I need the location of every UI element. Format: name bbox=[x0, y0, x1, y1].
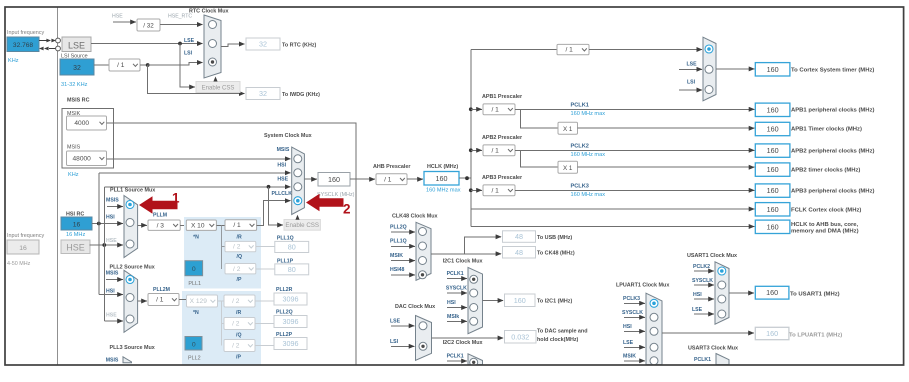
svg-text:HSE: HSE bbox=[112, 14, 123, 20]
value box To RTC 32 bbox=[246, 38, 280, 50]
svg-text:PLL1Q: PLL1Q bbox=[277, 236, 294, 242]
radio RTC HSE_RTC bbox=[209, 21, 217, 29]
radio clk48 msik bbox=[419, 257, 427, 265]
radio sys HSI bbox=[294, 169, 302, 177]
svg-text:/ 1: / 1 bbox=[233, 222, 241, 229]
mux USART3 partial bbox=[716, 354, 729, 365]
svg-text:APB2 timer clocks (MHz): APB2 timer clocks (MHz) bbox=[791, 167, 860, 173]
svg-text:USART1 Clock Mux: USART1 Clock Mux bbox=[687, 253, 737, 259]
radio usart1 lse bbox=[718, 310, 726, 318]
svg-text:160: 160 bbox=[767, 65, 779, 74]
svg-text:To USB (MHz): To USB (MHz) bbox=[537, 235, 572, 241]
svg-text:1: 1 bbox=[172, 191, 180, 206]
wire MSIK stub lpuart bbox=[624, 360, 645, 362]
wire MSIS to system mux bbox=[107, 158, 291, 160]
svg-text:/Q: /Q bbox=[236, 332, 241, 338]
radio clk48 pll1q bbox=[419, 242, 427, 250]
wire PCLK1 stub i2c1 bbox=[447, 278, 467, 280]
mux USART1 Clock Mux bbox=[715, 262, 729, 324]
value box HCLK 160 bbox=[424, 172, 459, 186]
PLL1 P dropdown /2 disabled bbox=[225, 264, 256, 274]
svg-text:APB1 Prescaler: APB1 Prescaler bbox=[482, 94, 523, 100]
value box To LPUART1 160 bbox=[755, 327, 789, 339]
wire hse to enable css2 bbox=[269, 187, 283, 225]
svg-text:SYSCLK: SYSCLK bbox=[692, 278, 713, 284]
wire lpuart out bbox=[662, 332, 754, 334]
wire clk48 to ck48 bbox=[465, 253, 502, 255]
svg-text:MSIS RC: MSIS RC bbox=[67, 98, 90, 104]
svg-text:PCLK2: PCLK2 bbox=[693, 264, 710, 270]
svg-text:HSE: HSE bbox=[106, 238, 117, 244]
svg-text:PLL2Q: PLL2Q bbox=[390, 224, 407, 230]
PLL1 N dropdown X10 bbox=[186, 220, 216, 230]
svg-text:APB3 Prescaler: APB3 Prescaler bbox=[482, 175, 523, 181]
PLL1 Q dropdown /2 disabled bbox=[225, 241, 256, 251]
svg-text:APB3 peripheral clocks (MHz): APB3 peripheral clocks (MHz) bbox=[791, 189, 875, 195]
svg-text:160: 160 bbox=[514, 296, 526, 305]
svg-text:X 10: X 10 bbox=[191, 222, 205, 229]
svg-text:/ 2: / 2 bbox=[232, 298, 240, 305]
wire FCLK bbox=[471, 208, 755, 210]
value box APB1 timer 160 bbox=[755, 122, 790, 135]
svg-text:MSIS: MSIS bbox=[106, 198, 119, 204]
svg-text:/ 1: / 1 bbox=[491, 147, 499, 154]
junction HSI bus bbox=[97, 222, 101, 226]
svg-text:/ 3: / 3 bbox=[157, 222, 165, 229]
svg-text:FCLK Cortex clock (MHz): FCLK Cortex clock (MHz) bbox=[791, 207, 861, 213]
wire LSI to RTC mux bbox=[148, 63, 203, 66]
cortex prescaler dropdown /1 bbox=[557, 44, 589, 54]
wire SYSCLK stub usart1 bbox=[694, 284, 714, 286]
mux DAC Clock Mux bbox=[416, 316, 432, 361]
svg-text:3096: 3096 bbox=[283, 339, 299, 348]
value box FCLK 160 bbox=[755, 203, 790, 216]
red arrow 2 bbox=[306, 194, 344, 212]
wire HSE_RTC to mux bbox=[160, 24, 203, 26]
wire LSE to enable CSS bbox=[180, 44, 195, 88]
junction hclk bbox=[465, 176, 469, 180]
wire HSI to PLL1 mux bbox=[92, 223, 123, 225]
HSE input frequency box 16 bbox=[7, 240, 39, 254]
svg-text:PCLK1: PCLK1 bbox=[447, 354, 464, 360]
LSE input frequency box 32.768 bbox=[7, 37, 39, 52]
svg-text:*N: *N bbox=[193, 310, 199, 316]
svg-text:16: 16 bbox=[19, 245, 27, 252]
svg-text:PCLK1: PCLK1 bbox=[694, 357, 711, 363]
radio usart1 pclk2 selected bbox=[718, 267, 726, 275]
value box To USB 48 bbox=[503, 231, 536, 243]
svg-text:PCLK1: PCLK1 bbox=[447, 271, 464, 277]
wire SYSCLK stub lpuart bbox=[624, 316, 645, 318]
PLL1 R dropdown /1 bbox=[225, 220, 257, 231]
radio usart1 hsi bbox=[718, 295, 726, 303]
PLL2 Q dropdown /2 disabled bbox=[224, 318, 255, 330]
LSI divider dropdown /1 bbox=[109, 59, 140, 71]
svg-text:160 MHz max: 160 MHz max bbox=[571, 192, 606, 198]
wire RTC mux output bbox=[221, 44, 245, 47]
radio RTC LSE bbox=[209, 40, 217, 48]
svg-text:Input frequency: Input frequency bbox=[7, 233, 44, 239]
svg-text:USART3 Clock Mux: USART3 Clock Mux bbox=[688, 346, 738, 352]
value box To CK48 48 bbox=[503, 247, 536, 259]
wire apb2 timer out bbox=[578, 166, 755, 168]
junction LSI bbox=[146, 63, 150, 67]
svg-text:LPUART1 Clock Mux: LPUART1 Clock Mux bbox=[616, 283, 669, 289]
svg-text:32: 32 bbox=[259, 89, 267, 98]
radio clk48 hsi48 selected bbox=[419, 271, 427, 279]
divider box /32 bbox=[137, 19, 160, 31]
PLL2 N dropdown X129 disabled bbox=[187, 295, 218, 307]
value box cortex 160 bbox=[755, 63, 790, 76]
svg-text:KHz: KHz bbox=[8, 58, 19, 64]
mux PLL3 partial bbox=[123, 357, 132, 363]
svg-text:4000: 4000 bbox=[74, 120, 89, 127]
wire pll2m to xn bbox=[179, 299, 187, 301]
radio lpuart pclk3 selected bbox=[650, 299, 658, 307]
wire apb1 timer branch bbox=[521, 109, 558, 128]
mux RTC Clock Mux bbox=[204, 15, 221, 78]
svg-text:LSE: LSE bbox=[390, 318, 401, 324]
wire p2 out bbox=[255, 345, 274, 347]
wire LSI to divider bbox=[94, 64, 109, 66]
connector circle top bbox=[56, 38, 61, 43]
wire cortex mux out bbox=[716, 68, 754, 70]
svg-text:KHz: KHz bbox=[68, 172, 79, 178]
value box APB3 peripheral 160 bbox=[755, 184, 790, 197]
radio pll1 HSI bbox=[126, 219, 134, 227]
wire LSI stub dac bbox=[391, 345, 414, 347]
svg-text:MSIS: MSIS bbox=[67, 145, 81, 151]
svg-text:160: 160 bbox=[328, 175, 340, 184]
svg-text:160: 160 bbox=[436, 174, 448, 183]
value box APB2 timer 160 bbox=[755, 163, 790, 176]
svg-text:I2C2 Clock Mux: I2C2 Clock Mux bbox=[443, 340, 483, 346]
value box PLL2P 3096 bbox=[274, 338, 307, 350]
wire vco2 split bbox=[221, 301, 224, 346]
svg-text:PLL1: PLL1 bbox=[188, 281, 201, 287]
svg-text:160: 160 bbox=[767, 205, 779, 214]
PLLM dropdown /3 bbox=[148, 220, 180, 230]
svg-text:PLL1Q: PLL1Q bbox=[390, 239, 407, 245]
wire bus to cortex div bbox=[471, 49, 557, 51]
wire PLL2Q stub bbox=[391, 231, 415, 233]
svg-text:/ 2: / 2 bbox=[232, 343, 240, 350]
svg-text:To LPUART1 (MHz): To LPUART1 (MHz) bbox=[789, 332, 842, 338]
mux PLL2 Source Mux bbox=[124, 270, 138, 332]
svg-text:MSIk: MSIk bbox=[447, 314, 459, 320]
svg-text:HSI: HSI bbox=[106, 215, 115, 221]
wire HSE to div32 bbox=[113, 21, 136, 23]
svg-text:48000: 48000 bbox=[73, 155, 92, 162]
wire cortex div to mux bbox=[589, 49, 702, 51]
svg-text:/ 2: / 2 bbox=[233, 244, 241, 251]
svg-text:/R: /R bbox=[236, 310, 241, 316]
wire PCLK1 stub i2c2 bbox=[447, 360, 467, 362]
wire sys mux out bbox=[304, 178, 316, 180]
value box APB1 peripheral 160 bbox=[755, 103, 790, 116]
svg-text:System Clock Mux: System Clock Mux bbox=[264, 133, 312, 139]
svg-text:PLL2Q: PLL2Q bbox=[276, 310, 293, 316]
svg-text:160 MHz max: 160 MHz max bbox=[571, 152, 606, 158]
wire LSE stub usart1 bbox=[694, 313, 714, 315]
svg-text:X 1: X 1 bbox=[563, 165, 573, 172]
svg-text:LSE: LSE bbox=[623, 340, 634, 346]
svg-text:memory and DMA (MHz): memory and DMA (MHz) bbox=[791, 229, 859, 235]
svg-text:3096: 3096 bbox=[283, 317, 299, 326]
svg-text:I2C1 Clock Mux: I2C1 Clock Mux bbox=[443, 259, 483, 265]
mux PLL1 Source Mux bbox=[124, 196, 138, 258]
wire ahb to hclk bbox=[407, 178, 423, 180]
svg-text:Input frequency: Input frequency bbox=[7, 30, 44, 36]
wire MSIk stub i2c1 bbox=[447, 320, 467, 322]
svg-text:LSI: LSI bbox=[184, 51, 193, 57]
PLL2 fractional box 0 bbox=[185, 337, 202, 351]
radio clk48 pll2q bbox=[419, 228, 427, 236]
svg-text:PLL2M: PLL2M bbox=[153, 287, 170, 293]
wire MSIS stub pll1 bbox=[107, 206, 123, 208]
svg-text:/R: /R bbox=[237, 235, 242, 241]
svg-text:MSIK: MSIK bbox=[623, 353, 636, 359]
wire HSI bus vertical bbox=[98, 173, 100, 295]
value box HCLK AHB 160 bbox=[755, 220, 790, 233]
AHB prescaler dropdown /1 bbox=[376, 174, 407, 185]
svg-text:To DAC sample and: To DAC sample and bbox=[537, 329, 588, 335]
radio pll1 MSIS selected bbox=[126, 201, 134, 209]
svg-text:160: 160 bbox=[767, 105, 779, 114]
svg-text:PCLK1: PCLK1 bbox=[571, 102, 589, 108]
separator line bbox=[57, 7, 59, 365]
svg-text:PCLK3: PCLK3 bbox=[571, 183, 589, 189]
svg-text:PLLCLK: PLLCLK bbox=[272, 191, 293, 197]
junction HSE bus bbox=[102, 243, 106, 247]
svg-text:0.032: 0.032 bbox=[511, 332, 529, 341]
svg-text:AHB Prescaler: AHB Prescaler bbox=[373, 164, 411, 170]
svg-text:To IWDG (KHz): To IWDG (KHz) bbox=[282, 92, 320, 98]
radio cortex hclk selected bbox=[705, 45, 713, 53]
value box SYSCLK 160 bbox=[318, 173, 350, 187]
svg-text:HSI: HSI bbox=[693, 292, 702, 298]
mux LPUART1 Clock Mux bbox=[646, 293, 662, 364]
radio i2c1 pclk1 selected bbox=[470, 275, 478, 283]
value box APB2 peripheral 160 bbox=[755, 144, 790, 157]
svg-text:/ 1: / 1 bbox=[491, 187, 499, 194]
svg-text:/ 1: / 1 bbox=[491, 106, 499, 113]
PLL2M dropdown /1 bbox=[148, 294, 179, 306]
wire MSIS stub pll2 bbox=[106, 279, 123, 281]
svg-text:MSIK: MSIK bbox=[390, 253, 403, 259]
radio dac lse bbox=[419, 322, 427, 330]
svg-text:160: 160 bbox=[767, 186, 779, 195]
wire HSI stub i2c1 bbox=[447, 307, 467, 309]
radio sys PLLCLK selected bbox=[294, 197, 302, 205]
svg-text:PLL2R: PLL2R bbox=[276, 287, 293, 293]
wire LSI to IWDG bbox=[148, 65, 245, 94]
svg-text:/ 1: / 1 bbox=[384, 176, 392, 183]
svg-text:Enable CSS: Enable CSS bbox=[285, 222, 319, 229]
wire i2c1 out bbox=[483, 300, 504, 302]
mux I2C1 Clock Mux bbox=[468, 267, 483, 333]
svg-text:SYSCLK: SYSCLK bbox=[446, 286, 467, 292]
radio i2c1 hsi bbox=[470, 304, 478, 312]
arrow enable CSS to mux bbox=[215, 81, 217, 82]
svg-text:RTC Clock Mux: RTC Clock Mux bbox=[189, 9, 229, 15]
PLL1 fractional box 0 bbox=[185, 261, 203, 276]
svg-text:hold clock(MHz): hold clock(MHz) bbox=[537, 337, 579, 343]
wire clk48 out bbox=[431, 237, 501, 254]
svg-text:Enable CSS: Enable CSS bbox=[202, 85, 235, 91]
wire r2 out bbox=[255, 300, 274, 302]
svg-text:160 MHz max: 160 MHz max bbox=[571, 111, 606, 117]
svg-text:/ 32: / 32 bbox=[143, 23, 154, 30]
wire hclk out bbox=[459, 177, 471, 179]
svg-text:80: 80 bbox=[288, 242, 296, 251]
PLL1 panel bbox=[184, 217, 261, 289]
wire PLL1Q stub bbox=[391, 245, 415, 247]
wire LSI divider output bbox=[140, 64, 148, 66]
value box PLL1P 80 bbox=[275, 264, 309, 275]
svg-text:0: 0 bbox=[192, 341, 196, 348]
mux CLK48 Clock Mux bbox=[416, 222, 431, 280]
wire apb2 timer branch bbox=[521, 150, 558, 167]
svg-text:To CK48 (MHz): To CK48 (MHz) bbox=[537, 251, 575, 257]
wire MSIK stub clk48 bbox=[391, 260, 415, 262]
svg-text:/ 2: / 2 bbox=[232, 321, 240, 328]
value box To DAC 0.032 bbox=[505, 331, 537, 344]
value box To I2C1 160 bbox=[505, 294, 536, 307]
radio pll2 HSI bbox=[126, 294, 134, 302]
wire usart1 out bbox=[729, 292, 754, 294]
svg-text:SYSCLK (MHz): SYSCLK (MHz) bbox=[317, 192, 355, 198]
svg-text:PLL2P: PLL2P bbox=[276, 332, 293, 338]
svg-text:PLL3 Source Mux: PLL3 Source Mux bbox=[110, 345, 155, 351]
radio sys HSE bbox=[294, 183, 302, 191]
svg-text:HSE: HSE bbox=[66, 243, 85, 253]
svg-text:APB2 peripheral clocks (MHz): APB2 peripheral clocks (MHz) bbox=[791, 148, 875, 154]
radio lpuart sysclk bbox=[650, 313, 658, 321]
svg-text:160 MHz max: 160 MHz max bbox=[426, 188, 461, 194]
svg-text:PLLM: PLLM bbox=[153, 212, 167, 218]
svg-text:PLL1P: PLL1P bbox=[277, 258, 294, 264]
wire dac out bbox=[432, 337, 504, 339]
wire HSE to PLL1 mux bbox=[90, 244, 123, 246]
svg-text:2: 2 bbox=[343, 202, 351, 217]
svg-text:HCLK to AHB bus, core,: HCLK to AHB bus, core, bbox=[791, 222, 859, 228]
MSIS dropdown 48000 bbox=[67, 151, 107, 166]
svg-text:HSE_RTC: HSE_RTC bbox=[168, 14, 192, 20]
radio lpuart lse bbox=[650, 343, 658, 351]
wire HCLK AHB bbox=[471, 226, 755, 228]
radio RTC LSI selected bbox=[209, 58, 217, 66]
wire HSI stub usart1 bbox=[694, 298, 714, 300]
wire LSE stub cortex bbox=[679, 68, 702, 70]
svg-text:PLL1 Source Mux: PLL1 Source Mux bbox=[110, 188, 155, 194]
svg-text:160: 160 bbox=[767, 165, 779, 174]
svg-text:LSI: LSI bbox=[687, 80, 696, 86]
wire n to r bbox=[216, 224, 225, 226]
svg-text:160: 160 bbox=[766, 288, 778, 297]
svg-text:To RTC (KHz): To RTC (KHz) bbox=[282, 42, 317, 48]
MSIK dropdown 4000 bbox=[67, 116, 107, 130]
svg-text:PCLK3: PCLK3 bbox=[623, 296, 640, 302]
wire LSI stub cortex bbox=[679, 89, 702, 91]
svg-text:HSI: HSI bbox=[623, 324, 632, 330]
svg-text:LSE: LSE bbox=[687, 62, 698, 68]
mux I2C2 partial bbox=[468, 354, 483, 365]
value box PLL2R 3096 bbox=[274, 293, 307, 305]
wire p out bbox=[256, 268, 275, 270]
svg-text:16: 16 bbox=[73, 221, 81, 228]
PLL2 P dropdown /2 disabled bbox=[224, 340, 255, 352]
value box PLL1Q 80 bbox=[275, 241, 309, 252]
svg-text:X 129: X 129 bbox=[190, 298, 208, 305]
svg-text:3096: 3096 bbox=[283, 295, 299, 304]
wire sysclk to ahb bbox=[350, 178, 375, 180]
radio pll1 HSE bbox=[126, 240, 134, 248]
PLL2 R dropdown /2 disabled bbox=[224, 295, 255, 307]
wire LSE to RTC mux bbox=[91, 43, 203, 45]
arrow enable css2 to mux bbox=[297, 218, 299, 221]
wire LSE stub lpuart bbox=[624, 346, 645, 348]
wire pllm to xn bbox=[180, 224, 186, 226]
svg-text:APB1 peripheral clocks (MHz): APB1 peripheral clocks (MHz) bbox=[791, 108, 875, 114]
svg-text:/ 1: / 1 bbox=[156, 297, 164, 304]
wire HSI bus to PLL2 mux bbox=[99, 294, 123, 296]
wire hclk bus vertical bbox=[470, 50, 472, 227]
svg-text:/ 1: / 1 bbox=[117, 62, 125, 69]
value box PLL2Q 3096 bbox=[274, 316, 307, 328]
svg-text:/Q: /Q bbox=[237, 254, 242, 260]
wire pll2 mux out bbox=[138, 300, 147, 302]
svg-text:HSE: HSE bbox=[277, 177, 288, 183]
svg-text:MSIS: MSIS bbox=[106, 271, 119, 277]
X1 multiplier box apb1 bbox=[558, 122, 578, 134]
svg-text:LSI: LSI bbox=[390, 339, 399, 345]
svg-text:HCLK (MHz): HCLK (MHz) bbox=[427, 164, 458, 170]
svg-text:48: 48 bbox=[515, 232, 523, 241]
red arrow 1 bbox=[139, 196, 178, 214]
svg-text:48: 48 bbox=[515, 248, 523, 257]
svg-text:16 MHz: 16 MHz bbox=[66, 232, 85, 238]
wire HSI stub lpuart bbox=[624, 330, 645, 332]
svg-text:CLK48 Clock Mux: CLK48 Clock Mux bbox=[392, 214, 438, 220]
wire HSE bus vertical bbox=[103, 187, 105, 321]
svg-text:LSE: LSE bbox=[68, 40, 85, 50]
svg-text:80: 80 bbox=[288, 265, 296, 274]
svg-text:SYSCLK: SYSCLK bbox=[622, 310, 643, 316]
wire pll1 mux out bbox=[138, 224, 147, 226]
svg-text:HSI48: HSI48 bbox=[390, 267, 405, 273]
HSE source box bbox=[61, 240, 90, 254]
svg-text:APB1 Timer clocks (MHz): APB1 Timer clocks (MHz) bbox=[791, 126, 862, 132]
radio pll2 MSIS selected bbox=[126, 276, 134, 284]
wire MSIK bus bbox=[107, 123, 357, 365]
connector circle bottom bbox=[56, 46, 61, 51]
wire q out bbox=[256, 245, 275, 247]
radio lpuart msik bbox=[650, 357, 658, 365]
mux System Clock Mux bbox=[292, 147, 305, 214]
svg-text:0: 0 bbox=[192, 266, 196, 273]
PLL2 panel bbox=[182, 291, 261, 365]
wire HSE bus to PLL2 mux bbox=[104, 320, 123, 322]
svg-text:To I2C1 (MHz): To I2C1 (MHz) bbox=[537, 298, 572, 304]
LSE connector wires bbox=[39, 40, 47, 42]
svg-text:/P: /P bbox=[237, 277, 242, 283]
wire apb1 timer out bbox=[578, 127, 755, 129]
svg-text:DAC Clock Mux: DAC Clock Mux bbox=[395, 304, 435, 310]
wire HSE bus to system mux bbox=[104, 186, 290, 188]
junction HSE css bbox=[267, 185, 271, 189]
svg-text:32.768: 32.768 bbox=[13, 42, 34, 49]
